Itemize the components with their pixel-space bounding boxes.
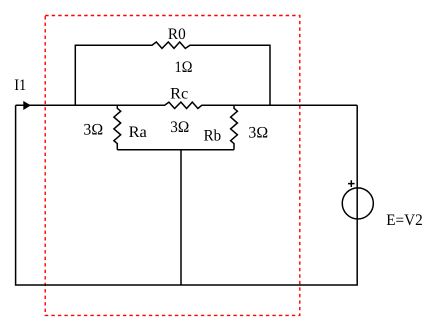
svg-text:3Ω: 3Ω bbox=[170, 119, 189, 136]
svg-text:3Ω: 3Ω bbox=[83, 122, 103, 139]
svg-text:Rc: Rc bbox=[170, 86, 188, 103]
svg-text:1Ω: 1Ω bbox=[175, 59, 193, 76]
svg-text:R0: R0 bbox=[168, 26, 186, 43]
svg-text:Rb: Rb bbox=[204, 128, 222, 145]
svg-text:Ra: Ra bbox=[129, 124, 147, 141]
svg-text:E=V2: E=V2 bbox=[386, 212, 423, 229]
svg-text:3Ω: 3Ω bbox=[248, 124, 268, 141]
svg-text:I1: I1 bbox=[14, 77, 26, 94]
